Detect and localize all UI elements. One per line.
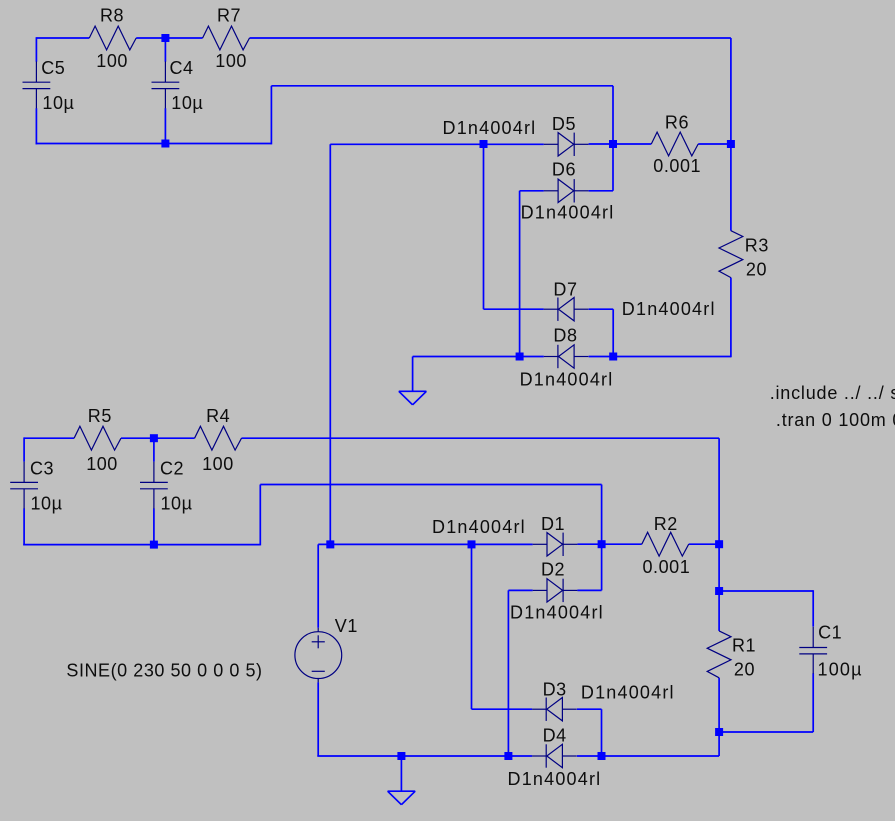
- svg-text:R7: R7: [217, 6, 241, 26]
- wire R1 top lead: [718, 591, 720, 631]
- wire vertical x=483.5: [483, 144, 485, 309]
- svg-text:D4: D4: [543, 726, 567, 746]
- wire C1 top link: [719, 590, 813, 592]
- svg-text:C4: C4: [170, 58, 194, 78]
- wire riser D2 to D1 row: [601, 544, 603, 590]
- diode D5: [544, 133, 589, 156]
- svg-text:10µ: 10µ: [42, 93, 74, 113]
- svg-text:R2: R2: [654, 514, 678, 534]
- resistor R4: [195, 426, 242, 450]
- node junction C4 top: [161, 34, 169, 42]
- svg-text:R1: R1: [732, 636, 756, 656]
- wire lower rail left of R5: [24, 437, 74, 439]
- svg-text:D1n4004rl: D1n4004rl: [432, 517, 526, 537]
- wire D7 anode to corner: [589, 308, 614, 310]
- ground bottom: [388, 791, 416, 805]
- wire D2 row left: [508, 589, 532, 591]
- svg-text:100: 100: [96, 51, 128, 71]
- diode D2: [533, 579, 578, 602]
- wire D6 cathode to x=613: [589, 190, 613, 192]
- wire D8 row left: [413, 356, 544, 358]
- wire C3 bottom lead: [23, 508, 25, 545]
- wire long vertical x=330: [329, 144, 331, 544]
- svg-text:D3: D3: [543, 679, 567, 699]
- wire C4 bottom lead: [164, 108, 166, 143]
- wire D1 cathode to R2: [577, 543, 641, 545]
- wire right rail upper: [730, 38, 732, 231]
- node junction C1 top tee: [715, 587, 723, 595]
- node junction x=471.5 D1 row: [468, 540, 476, 548]
- wire ground stub top: [412, 357, 414, 392]
- node junction D8 right x=613: [609, 353, 617, 361]
- diode D8: [544, 345, 589, 368]
- resistor R3: [719, 231, 743, 278]
- wire D4 rail left: [317, 755, 532, 757]
- svg-text:D2: D2: [541, 559, 565, 579]
- wire right rail lower: [730, 278, 732, 358]
- svg-text:10µ: 10µ: [171, 93, 203, 113]
- wire vertical x=613 upper: [612, 86, 614, 191]
- svg-text:10µ: 10µ: [161, 493, 193, 513]
- node D5 row left wire: [330, 143, 544, 145]
- diode D4: [532, 744, 577, 767]
- wire ground stub bottom: [400, 756, 402, 791]
- node junction D5 cathode x=613: [609, 140, 617, 148]
- svg-text:D1n4004rl: D1n4004rl: [510, 602, 604, 622]
- svg-text:D1n4004rl: D1n4004rl: [622, 299, 716, 319]
- wire C3 top lead: [23, 437, 25, 461]
- wire vertical x=601.5 to D4 rail: [601, 709, 603, 756]
- svg-text:R8: R8: [100, 6, 124, 26]
- wire vertical x=508.4: [507, 590, 509, 756]
- resistor R7: [203, 26, 250, 50]
- wire lower RC bottom rail: [23, 544, 260, 546]
- svg-text:20: 20: [746, 259, 767, 279]
- wire C4 top lead: [164, 38, 166, 62]
- node junction D8 left x=519.6: [516, 353, 524, 361]
- capacitor C5: [23, 61, 51, 108]
- wire C5 bottom lead: [35, 108, 37, 144]
- wire riser x=271: [270, 86, 272, 145]
- ground top: [399, 391, 427, 405]
- resistor R6: [651, 132, 698, 156]
- wire vertical x=613 lower segment: [612, 309, 614, 356]
- wire upper RC bottom rail: [36, 143, 272, 145]
- svg-text:V1: V1: [335, 616, 358, 636]
- node junction C1 bottom tee: [715, 728, 723, 736]
- resistor R5: [74, 426, 121, 450]
- wire lower rail R5 to R4: [121, 437, 195, 439]
- svg-text:10µ: 10µ: [31, 493, 63, 513]
- voltage source V1: [295, 628, 342, 683]
- node junction D4 cathode side x=508: [504, 752, 512, 760]
- capacitor C4: [152, 61, 180, 108]
- wire C2 top lead: [153, 438, 155, 462]
- wire D4 rail right: [577, 755, 719, 757]
- svg-text:D7: D7: [553, 280, 577, 300]
- node D1 row left wire: [318, 543, 533, 545]
- wire connector y=86: [271, 85, 613, 87]
- wire R6 right lead: [698, 143, 731, 145]
- wire D2 cathode to riser: [577, 589, 601, 591]
- wire riser x=260: [259, 485, 261, 546]
- diode D1: [533, 533, 578, 556]
- node junction R2 right: [715, 540, 723, 548]
- svg-text:100: 100: [86, 454, 118, 474]
- svg-text:R6: R6: [665, 113, 689, 133]
- svg-text:0.001: 0.001: [643, 557, 691, 577]
- node junction D4 anode: [598, 752, 606, 760]
- svg-text:D1n4004rl: D1n4004rl: [520, 369, 614, 389]
- svg-text:D5: D5: [552, 114, 576, 134]
- wire lower rail R4 to right: [242, 437, 720, 439]
- wire right vertical x=719 top: [718, 438, 720, 591]
- wire R2 right lead: [689, 543, 719, 545]
- svg-text:20: 20: [734, 660, 755, 680]
- svg-text:R3: R3: [745, 235, 769, 255]
- capacitor C2: [140, 462, 168, 509]
- wire D8 row right: [589, 356, 731, 358]
- resistor R1: [707, 631, 731, 678]
- wire C1 top vertical: [812, 590, 814, 626]
- wire top rail left of R8: [36, 37, 89, 39]
- wire top rail R7 to right corner: [250, 37, 731, 39]
- wire V1 bottom lead: [317, 682, 319, 756]
- svg-text:D1n4004rl: D1n4004rl: [508, 769, 602, 789]
- resistor R8: [89, 26, 136, 50]
- diode D7: [544, 298, 589, 321]
- svg-text:C1: C1: [818, 623, 842, 643]
- svg-text:R5: R5: [88, 406, 112, 426]
- node junction D1 cathode: [598, 540, 606, 548]
- svg-text:D6: D6: [552, 159, 576, 179]
- svg-text:D1n4004rl: D1n4004rl: [581, 683, 675, 703]
- wire V1 top elbow: [317, 544, 319, 627]
- node junction C2 bottom: [150, 541, 158, 549]
- wire top rail R8 to R7: [136, 37, 202, 39]
- wire R1 bottom lead: [718, 678, 720, 732]
- wire vertical x=519.6: [519, 191, 521, 357]
- svg-text:100: 100: [215, 51, 247, 71]
- svg-text:R4: R4: [206, 406, 230, 426]
- svg-text:C5: C5: [41, 58, 65, 78]
- svg-text:.tran 0 100m 0.09: .tran 0 100m 0.09: [776, 410, 895, 430]
- node junction x=330 D1 row: [326, 540, 334, 548]
- capacitor C3: [10, 462, 38, 509]
- node junction C2 top: [150, 434, 158, 442]
- node junction ground tee: [397, 752, 405, 760]
- svg-text:D1n4004rl: D1n4004rl: [443, 118, 537, 138]
- resistor R2: [642, 532, 689, 556]
- wire connector y=484.5: [260, 484, 601, 486]
- svg-text:100µ: 100µ: [818, 660, 863, 680]
- svg-text:0.001: 0.001: [653, 156, 701, 176]
- svg-text:100: 100: [202, 454, 234, 474]
- diode D6: [544, 179, 589, 202]
- svg-text:C3: C3: [30, 459, 54, 479]
- svg-text:D1n4004rl: D1n4004rl: [521, 202, 615, 222]
- diode D3: [532, 698, 577, 721]
- svg-text:SINE(0 230 50 0 0 0 5): SINE(0 230 50 0 0 0 5): [66, 660, 262, 680]
- wire C2 bottom lead: [153, 508, 155, 544]
- wire D3 row left: [472, 708, 533, 710]
- wire C5 top lead: [35, 37, 37, 62]
- node junction C4 bottom: [161, 140, 169, 148]
- wire C1 bottom link: [719, 731, 813, 733]
- svg-text:D1: D1: [541, 514, 565, 534]
- node junction R6 right: [727, 140, 735, 148]
- wire vertical x=471.5: [471, 544, 473, 709]
- wire D6 row left: [520, 190, 544, 192]
- wire D3 anode to corner: [577, 708, 602, 710]
- wire C1 bottom vertical: [812, 673, 814, 732]
- svg-text:D8: D8: [553, 326, 577, 346]
- wire D7 row left: [484, 308, 544, 310]
- capacitor C1: [799, 627, 827, 674]
- wire vertical x=601.6 upper: [601, 485, 603, 545]
- svg-text:.include ../ ../ sim: .include ../ ../ sim: [770, 383, 895, 403]
- node junction D5 anode: [480, 140, 488, 148]
- wire x=719 to D4 rail: [718, 732, 720, 756]
- svg-text:C2: C2: [160, 459, 184, 479]
- wire D5 cathode to R6: [589, 143, 652, 145]
